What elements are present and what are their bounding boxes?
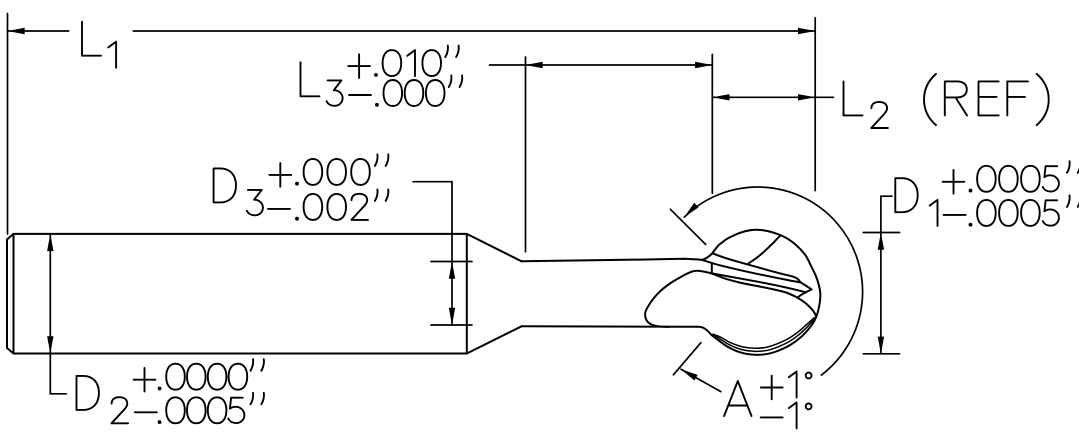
beak upper edge bbox=[797, 290, 811, 298]
shank chamfer edge line bbox=[13, 234, 15, 354]
taper top line bbox=[467, 234, 522, 261]
neck-to-ball fillet bbox=[702, 253, 713, 260]
dimension L3 extension line right bbox=[711, 54, 713, 193]
dimension L3 line bbox=[490, 64, 713, 66]
flute gash curve bbox=[749, 236, 780, 263]
label A with tolerance +1/-1 degrees bbox=[724, 381, 751, 416]
angle A text leader bbox=[681, 369, 721, 391]
dimension L1 extension line right bbox=[814, 18, 816, 191]
cutting edge line A bbox=[713, 253, 800, 281]
tip face bbox=[800, 282, 812, 290]
relief arc 1 bbox=[713, 318, 815, 351]
dimension L1 line bbox=[8, 30, 69, 32]
dimension L3 extension line left bbox=[525, 57, 527, 252]
label L3 with tolerance +.010/-.000 bbox=[301, 62, 320, 96]
label L1 bbox=[82, 22, 101, 56]
dimension D3 extension tick top bbox=[431, 261, 472, 263]
angle A leader arc bbox=[684, 187, 862, 375]
flute face line C bbox=[712, 273, 806, 292]
angle A tick top-left bbox=[670, 209, 705, 244]
dimension D3 leader bracket bbox=[413, 182, 452, 325]
neck bottom line bbox=[522, 325, 698, 328]
label D2 with tolerance +.0000/-.0005 bbox=[77, 376, 99, 410]
dimension D1 extension tick top bbox=[863, 232, 899, 234]
label D3 with tolerance +.000/-.002 bbox=[214, 168, 236, 202]
flute step bbox=[711, 264, 713, 273]
neck top line bbox=[522, 259, 703, 262]
label D1 with tolerance +.0005/-.0005 bbox=[895, 178, 917, 212]
label L2 (REF) bbox=[844, 81, 863, 115]
dimension D2 line bbox=[50, 234, 66, 394]
ball outline bbox=[697, 230, 820, 355]
dimension L1 extension line left bbox=[7, 14, 9, 235]
beak lower edge bbox=[797, 298, 816, 316]
dimension L2 line bbox=[712, 96, 833, 98]
land line B from neck to tip bbox=[702, 260, 800, 282]
angle A tick bottom-left bbox=[673, 343, 701, 375]
shank outline bbox=[7, 234, 467, 354]
relief arc 2 bbox=[713, 318, 814, 349]
taper bottom line bbox=[467, 326, 522, 353]
dimension D3 extension tick bottom bbox=[431, 324, 472, 326]
lower flute lobe bbox=[645, 271, 797, 327]
dimension D1 extension tick bottom bbox=[863, 353, 899, 355]
dimension D1 line and leader bracket bbox=[881, 196, 892, 354]
